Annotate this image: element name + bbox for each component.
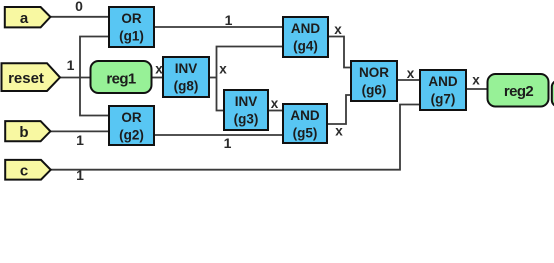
svg-text:AND: AND	[290, 108, 319, 123]
svg-text:(g2): (g2)	[119, 128, 144, 143]
svg-text:INV: INV	[175, 61, 198, 76]
svg-text:reg1: reg1	[106, 71, 136, 88]
svg-text:NOR: NOR	[359, 65, 389, 80]
svg-text:(g1): (g1)	[119, 29, 144, 44]
svg-text:(g7): (g7)	[431, 92, 456, 107]
svg-text:reset: reset	[8, 70, 44, 87]
svg-text:x: x	[407, 66, 415, 81]
svg-text:1: 1	[76, 167, 84, 183]
svg-text:1: 1	[67, 57, 75, 73]
svg-text:(g8): (g8)	[174, 79, 199, 94]
svg-text:reg2: reg2	[504, 83, 534, 100]
svg-text:x: x	[334, 22, 342, 37]
svg-text:x: x	[219, 62, 227, 77]
svg-text:a: a	[20, 10, 29, 27]
svg-text:AND: AND	[428, 74, 457, 89]
svg-text:c: c	[20, 162, 28, 179]
svg-text:1: 1	[76, 132, 84, 148]
svg-text:INV: INV	[235, 94, 258, 109]
svg-text:AND: AND	[291, 21, 320, 36]
svg-text:OR: OR	[121, 11, 142, 26]
svg-text:x: x	[472, 73, 480, 88]
svg-text:(g5): (g5)	[293, 126, 318, 141]
svg-text:(g6): (g6)	[362, 83, 387, 98]
svg-text:(g4): (g4)	[293, 39, 318, 54]
svg-text:0: 0	[75, 0, 83, 14]
svg-text:x: x	[155, 62, 163, 77]
svg-text:1: 1	[225, 12, 233, 28]
svg-text:x: x	[271, 96, 279, 111]
svg-text:x: x	[335, 124, 343, 139]
svg-text:(g3): (g3)	[234, 112, 259, 127]
svg-text:1: 1	[224, 135, 232, 151]
svg-text:b: b	[19, 124, 28, 141]
svg-text:OR: OR	[121, 110, 142, 125]
